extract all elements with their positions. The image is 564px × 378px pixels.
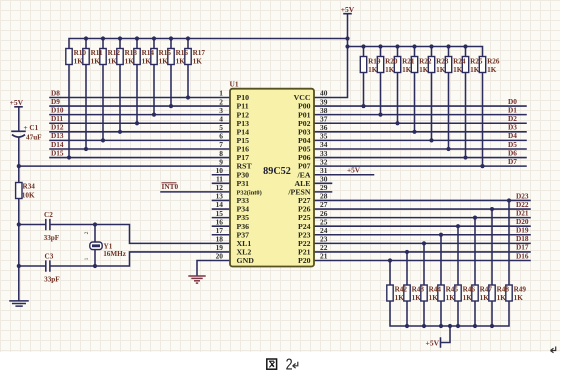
svg-text:GND: GND: [237, 256, 255, 265]
svg-text:R45: R45: [446, 286, 459, 294]
svg-text:C2: C2: [44, 211, 53, 219]
svg-text:R44: R44: [429, 286, 442, 294]
svg-text:1K: 1K: [91, 58, 101, 66]
svg-text:R13: R13: [125, 49, 138, 57]
svg-text:1K: 1K: [463, 294, 473, 302]
svg-text:R46: R46: [463, 286, 476, 294]
svg-text:U1: U1: [230, 80, 239, 89]
svg-text:1K: 1K: [436, 66, 446, 74]
svg-text:1K: 1K: [368, 66, 378, 74]
svg-text:1K: 1K: [108, 58, 118, 66]
svg-text:47uF: 47uF: [26, 133, 42, 141]
svg-text:D16: D16: [516, 251, 529, 260]
svg-text:P20: P20: [298, 256, 311, 265]
svg-text:D7: D7: [508, 157, 517, 166]
svg-text:1K: 1K: [480, 294, 490, 302]
svg-text:+5V: +5V: [10, 98, 24, 107]
svg-text:R15: R15: [159, 49, 172, 57]
svg-text:R24: R24: [453, 58, 466, 66]
svg-text:33pF: 33pF: [44, 234, 60, 242]
svg-text:2: 2: [286, 357, 293, 374]
svg-text:1K: 1K: [470, 66, 480, 74]
svg-text:R17: R17: [193, 49, 206, 57]
svg-text:1K: 1K: [159, 58, 169, 66]
svg-text:R25: R25: [470, 58, 483, 66]
svg-text:1K: 1K: [125, 58, 135, 66]
svg-text:1K: 1K: [142, 58, 152, 66]
svg-text:33pF: 33pF: [44, 276, 60, 284]
svg-text:1K: 1K: [412, 294, 422, 302]
svg-text:R14: R14: [142, 49, 155, 57]
svg-text:2: 2: [84, 231, 90, 234]
svg-text:+ C1: + C1: [24, 124, 39, 132]
svg-text:1K: 1K: [497, 294, 507, 302]
svg-text:R49: R49: [514, 286, 527, 294]
svg-text:INT0: INT0: [162, 182, 179, 191]
svg-text:20: 20: [216, 252, 224, 261]
svg-text:1K: 1K: [446, 294, 456, 302]
svg-text:1K: 1K: [402, 66, 412, 74]
svg-text:R20: R20: [385, 58, 398, 66]
svg-text:10K: 10K: [22, 191, 35, 199]
svg-text:21: 21: [320, 252, 328, 261]
svg-text:R23: R23: [436, 58, 449, 66]
svg-text:1K: 1K: [453, 66, 463, 74]
svg-text:1K: 1K: [419, 66, 429, 74]
svg-text:1: 1: [84, 257, 90, 260]
svg-text:89C52: 89C52: [263, 166, 291, 177]
svg-text:R48: R48: [497, 286, 510, 294]
svg-text:1K: 1K: [74, 58, 84, 66]
svg-text:1K: 1K: [514, 294, 524, 302]
svg-text:R11: R11: [91, 49, 103, 57]
svg-text:C3: C3: [45, 253, 54, 261]
svg-text:+5V: +5V: [341, 5, 355, 14]
svg-text:+5V: +5V: [426, 338, 440, 347]
svg-text:1K: 1K: [487, 66, 497, 74]
svg-text:1K: 1K: [176, 58, 186, 66]
svg-text:R34: R34: [23, 183, 36, 191]
svg-text:R21: R21: [402, 58, 415, 66]
svg-text:1K: 1K: [385, 66, 395, 74]
svg-text:D15: D15: [51, 148, 64, 157]
svg-text:16MHz: 16MHz: [103, 250, 127, 258]
svg-text:R16: R16: [176, 49, 189, 57]
svg-text:R26: R26: [487, 58, 500, 66]
svg-text:1K: 1K: [193, 58, 203, 66]
svg-text:R22: R22: [419, 58, 432, 66]
svg-text:1K: 1K: [429, 294, 439, 302]
svg-text:R12: R12: [108, 49, 121, 57]
svg-text:R43: R43: [412, 286, 425, 294]
svg-text:P31: P31: [237, 179, 250, 188]
svg-text:R42: R42: [395, 286, 408, 294]
svg-text:+5V: +5V: [347, 165, 361, 174]
svg-text:R19: R19: [368, 58, 381, 66]
svg-text:R10: R10: [74, 49, 87, 57]
svg-text:R47: R47: [480, 286, 493, 294]
svg-text:1K: 1K: [395, 294, 405, 302]
